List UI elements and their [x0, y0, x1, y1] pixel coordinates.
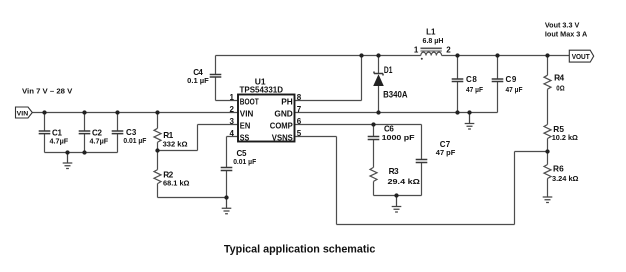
- svg-text:47 pF: 47 pF: [436, 148, 456, 157]
- ground comp network: [392, 196, 402, 213]
- svg-text:C8: C8: [466, 75, 477, 84]
- svg-text:5: 5: [297, 129, 302, 138]
- resistor R4: [544, 75, 551, 89]
- node gnd rail: [467, 110, 471, 114]
- svg-text:Iout Max 3 A: Iout Max 3 A: [545, 29, 588, 38]
- svg-text:29.4 kΩ: 29.4 kΩ: [388, 177, 420, 186]
- svg-text:2: 2: [446, 46, 451, 55]
- svg-text:4: 4: [230, 129, 235, 138]
- node C8 top: [455, 53, 459, 57]
- svg-text:VIN: VIN: [17, 110, 29, 117]
- node D1 bottom: [376, 110, 380, 114]
- resistor R2: [154, 170, 161, 184]
- wire VSNS feedback: [295, 137, 548, 225]
- node PH riser: [359, 53, 363, 57]
- svg-text:47 µF: 47 µF: [466, 85, 483, 94]
- svg-text:68.1 kΩ: 68.1 kΩ: [163, 178, 190, 187]
- capacitor C7: [416, 160, 428, 163]
- node R4 top: [545, 53, 549, 57]
- resistor R6: [544, 165, 551, 179]
- resistor R1: [154, 128, 161, 142]
- svg-text:0.01 µF: 0.01 µF: [123, 136, 146, 145]
- svg-text:VIN: VIN: [240, 108, 254, 118]
- wire C8 branch: [457, 56, 459, 113]
- wire GND rail pin7: [295, 112, 498, 114]
- wire comp ground rail: [374, 195, 422, 197]
- node C2 bottom: [82, 150, 86, 154]
- diode D1: [373, 72, 384, 87]
- wire output rail: [442, 55, 570, 57]
- wire R1 leads: [157, 113, 159, 151]
- svg-text:VSNS: VSNS: [272, 132, 293, 142]
- svg-text:BOOT: BOOT: [240, 96, 259, 106]
- svg-text:EN: EN: [240, 120, 251, 130]
- wire PH riser pin8: [295, 56, 362, 101]
- ground GND rail: [465, 113, 475, 130]
- capacitor C4: [210, 75, 222, 78]
- wire SS bottom rail: [158, 197, 227, 199]
- inductor L1: [421, 48, 442, 59]
- wire R3 lead: [373, 181, 375, 195]
- node D1 top: [376, 53, 380, 57]
- wire R2 leads: [157, 151, 159, 198]
- svg-text:3: 3: [230, 117, 235, 126]
- wire VIN rail to pin2: [32, 112, 238, 114]
- VOUT output tag: [569, 50, 593, 62]
- svg-text:Typical application schematic: Typical application schematic: [224, 244, 376, 256]
- node C1/VIN: [42, 110, 46, 114]
- node C8 bottom: [455, 110, 459, 114]
- node comp gnd: [394, 193, 398, 197]
- capacitor C8: [452, 79, 464, 82]
- svg-text:C9: C9: [506, 75, 517, 84]
- svg-text:4.7µF: 4.7µF: [50, 137, 69, 146]
- svg-text:COMP: COMP: [270, 120, 293, 130]
- svg-text:1000 pF: 1000 pF: [382, 133, 415, 142]
- op-amp U1 IC box: [238, 95, 295, 142]
- wire C1 branch: [44, 113, 46, 153]
- ground R6: [543, 197, 553, 203]
- svg-text:10.2 kΩ: 10.2 kΩ: [552, 133, 578, 142]
- wire C9 branch: [497, 56, 499, 113]
- svg-text:8: 8: [297, 93, 302, 102]
- wire SS pin4 to C5: [227, 137, 239, 198]
- svg-text:R3: R3: [389, 166, 399, 176]
- svg-text:GND: GND: [274, 108, 292, 118]
- capacitor C6: [368, 137, 380, 140]
- svg-text:Vin 7 V – 28 V: Vin 7 V – 28 V: [22, 86, 72, 95]
- node R5/R6 feedback: [545, 149, 549, 153]
- ground C5/SS: [222, 198, 232, 214]
- capacitor C9: [492, 79, 504, 82]
- wire C2 branch: [84, 113, 86, 153]
- node C3/VIN: [115, 110, 119, 114]
- wire C6 branch: [373, 125, 375, 168]
- node C9 top: [495, 53, 499, 57]
- capacitor C3: [112, 131, 124, 134]
- svg-text:VOUT: VOUT: [572, 52, 591, 61]
- svg-text:D1: D1: [384, 65, 393, 75]
- svg-text:R6: R6: [553, 164, 564, 174]
- capacitor C5: [221, 168, 233, 171]
- wire COMP rail pin6: [295, 124, 422, 126]
- svg-text:R4: R4: [554, 72, 564, 82]
- wire top switch-node rail: [216, 55, 421, 57]
- svg-text:47 µF: 47 µF: [506, 85, 523, 94]
- node gnd1: [65, 150, 69, 154]
- svg-text:7: 7: [297, 105, 302, 114]
- node C6/COMP: [371, 122, 375, 126]
- svg-text:0.1 µF: 0.1 µF: [187, 76, 209, 85]
- svg-text:3.24 kΩ: 3.24 kΩ: [552, 174, 579, 183]
- svg-text:1: 1: [414, 46, 419, 55]
- svg-text:1: 1: [230, 93, 235, 102]
- svg-text:0.01 µF: 0.01 µF: [233, 157, 256, 166]
- svg-text:TPS54331D: TPS54331D: [240, 84, 284, 94]
- ground input caps: [63, 153, 73, 169]
- svg-text:4.7µF: 4.7µF: [90, 137, 109, 146]
- svg-text:Vout 3.3 V: Vout 3.3 V: [545, 20, 579, 29]
- wire BOOT pin1 to C4: [216, 56, 239, 101]
- wire EN net: [158, 125, 239, 151]
- capacitor C2: [79, 131, 91, 134]
- capacitor C1: [39, 131, 51, 134]
- svg-text:2: 2: [230, 105, 235, 114]
- node C2/VIN: [82, 110, 86, 114]
- wire C3 branch: [117, 113, 119, 153]
- svg-text:PH: PH: [281, 96, 293, 106]
- resistor R3: [370, 167, 377, 181]
- svg-text:6.8 µH: 6.8 µH: [423, 36, 444, 45]
- svg-text:B340A: B340A: [383, 89, 408, 99]
- svg-text:SS: SS: [240, 132, 250, 142]
- node R1/VIN: [155, 110, 159, 114]
- node R1/R2/EN: [155, 148, 159, 152]
- wire C7 branch: [421, 125, 423, 196]
- node C5/gnd: [224, 195, 228, 199]
- wire D1 leads: [378, 56, 380, 113]
- svg-text:332 kΩ: 332 kΩ: [163, 139, 188, 148]
- svg-text:0Ω: 0Ω: [556, 83, 564, 92]
- wire input cap ground rail: [45, 152, 118, 154]
- VIN input tag: [16, 107, 33, 118]
- resistor R5: [544, 125, 551, 139]
- svg-text:6: 6: [297, 117, 302, 126]
- wire R4-R5-R6 chain: [547, 56, 549, 198]
